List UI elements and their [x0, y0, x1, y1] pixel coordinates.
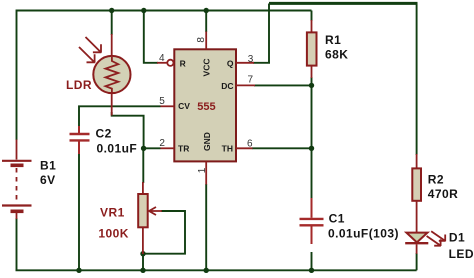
wire R1 top lead from rail [311, 11, 313, 22]
wire TR net: LDR bottom to TR junction [112, 112, 144, 148]
wire pin4 R branch [144, 10, 158, 63]
wire C1 bottom to ground rail [311, 252, 313, 270]
svg-text:2: 2 [159, 138, 165, 149]
svg-text:5: 5 [159, 96, 165, 107]
pin 8 VCC stub [205, 32, 207, 50]
wire ground bottom rail [16, 269, 417, 271]
label VR1 [100, 205, 125, 219]
battery B1 [2, 140, 32, 220]
label R2 value 470R [428, 187, 459, 201]
pin name R [180, 58, 186, 68]
pin number 8 (rotated) [196, 37, 207, 43]
wire CV net: C2 top to pin5 [79, 106, 161, 127]
svg-text:3: 3 [248, 54, 254, 65]
wire LED cathode to ground rail [416, 253, 418, 270]
pin number 4 [159, 53, 165, 64]
pin name TR [178, 144, 189, 154]
wire DC/TH vertical link [311, 77, 313, 148]
wire TH junction down to C1 [311, 148, 313, 199]
label VR1 value 100K [98, 227, 128, 241]
node junction top rail at pin4 branch [141, 8, 146, 13]
svg-text:R2: R2 [428, 172, 444, 186]
pin name Q [227, 58, 234, 68]
svg-text:8: 8 [196, 37, 207, 43]
svg-text:DC: DC [221, 81, 233, 91]
svg-text:LDR: LDR [66, 78, 92, 92]
pin 2 TR stub [161, 147, 175, 149]
node junction top rail at pin8 branch [204, 8, 209, 13]
svg-text:CV: CV [178, 101, 190, 111]
svg-text:0.01uF(103): 0.01uF(103) [328, 226, 399, 240]
wire LDR top branch [111, 10, 113, 35]
wire pin1 GND to ground rail [205, 184, 207, 270]
svg-text:C2: C2 [96, 127, 112, 141]
pin 5 CV stub [161, 105, 175, 107]
pin name VCC (rotated) [201, 59, 211, 77]
wire VR1 wiper loop [143, 211, 185, 254]
svg-text:D1: D1 [449, 231, 465, 245]
wire pin3 Q horizontal [253, 62, 270, 64]
wire pin7 DC to R1 bottom junction [254, 84, 312, 86]
node junction ground rail at VR1 [140, 268, 145, 273]
label B1 value 6V [40, 173, 56, 187]
op-amp U1 555 timer body [174, 49, 236, 161]
svg-text:C1: C1 [329, 212, 345, 226]
svg-text:100K: 100K [98, 227, 128, 241]
node junction TH / C1 top [309, 146, 314, 151]
node junction top rail at LDR [109, 8, 114, 13]
svg-text:6V: 6V [40, 173, 56, 187]
svg-text:TH: TH [222, 144, 233, 154]
node junction ground rail at C1 [309, 268, 314, 273]
wire right branch vertical to R2 [416, 4, 418, 156]
pin number 1 (rotated) [197, 167, 208, 173]
node junction ground rail at pin1 [204, 268, 209, 273]
svg-text:Q: Q [227, 58, 234, 68]
wire left vertical from VCC rail to battery + [16, 10, 18, 141]
pin number 7 [248, 74, 254, 85]
pin name CV [178, 101, 190, 111]
pin 4 R stub with inversion circle [157, 60, 173, 66]
label D1 value LED [449, 247, 474, 261]
wire pin8 VCC branch [205, 10, 207, 32]
pin 6 TH stub [236, 147, 253, 149]
svg-text:GND: GND [202, 132, 212, 151]
svg-text:555: 555 [197, 101, 215, 113]
label C2 [96, 127, 112, 141]
wire TR junction down to VR1 [142, 148, 144, 183]
resistor LDR (photoresistor) [79, 34, 131, 116]
svg-text:4: 4 [159, 53, 165, 64]
capacitor C1 [300, 198, 324, 244]
pin name GND (rotated) [202, 132, 212, 151]
pin 3 Q stub [236, 62, 254, 64]
node junction ground rail at C2 [76, 268, 81, 273]
label R1 value 68K [325, 48, 348, 62]
svg-text:1: 1 [197, 167, 208, 173]
pin name DC [221, 81, 233, 91]
pin name TH [222, 144, 233, 154]
wire Q output top rail (thick) [269, 2, 418, 5]
pin number 2 [159, 138, 165, 149]
svg-text:B1: B1 [40, 158, 56, 172]
svg-text:R: R [180, 58, 186, 68]
svg-text:68K: 68K [325, 48, 348, 62]
label 555 [197, 101, 215, 113]
capacitor C2 [70, 126, 90, 154]
label LDR [66, 78, 92, 92]
svg-text:7: 7 [248, 74, 254, 85]
label B1 [40, 158, 56, 172]
svg-text:VCC: VCC [201, 59, 211, 77]
pin number 3 [248, 54, 254, 65]
label C2 value 0.01uF [97, 142, 138, 156]
wire VR1 bottom to ground rail [142, 254, 144, 271]
resistor R2 [412, 154, 421, 232]
label C1 value 0.01uF(103) [328, 226, 399, 240]
wire C2 bottom to ground rail [78, 153, 80, 270]
resistor R1 [307, 20, 317, 78]
pin 1 GND stub [205, 161, 207, 184]
resistor VR1 (potentiometer) [138, 182, 162, 254]
svg-text:6: 6 [247, 138, 253, 149]
pin number 6 [247, 138, 253, 149]
wire TR junction to pin2 [144, 147, 161, 149]
node junction VR1 wiper loop bottom [140, 251, 145, 256]
label R1 [325, 33, 341, 47]
label R2 [428, 172, 444, 186]
svg-text:0.01uF: 0.01uF [97, 142, 138, 156]
svg-text:R1: R1 [325, 33, 341, 47]
wire pin6 TH horizontal [252, 147, 312, 149]
svg-text:470R: 470R [428, 187, 459, 201]
diode D1 LED [405, 231, 445, 254]
label C1 [329, 212, 345, 226]
wire battery - to ground rail [16, 218, 18, 270]
wire pin3 Q riser [268, 4, 270, 63]
svg-text:LED: LED [449, 247, 474, 261]
pin number 5 [159, 96, 165, 107]
node junction DC / R1 bottom [309, 83, 314, 88]
wire VCC top rail [17, 10, 312, 12]
label D1 [449, 231, 465, 245]
node junction TR / VR1 [141, 146, 146, 151]
svg-text:VR1: VR1 [100, 205, 125, 219]
svg-text:TR: TR [178, 144, 189, 154]
pin 7 DC stub [236, 84, 255, 86]
